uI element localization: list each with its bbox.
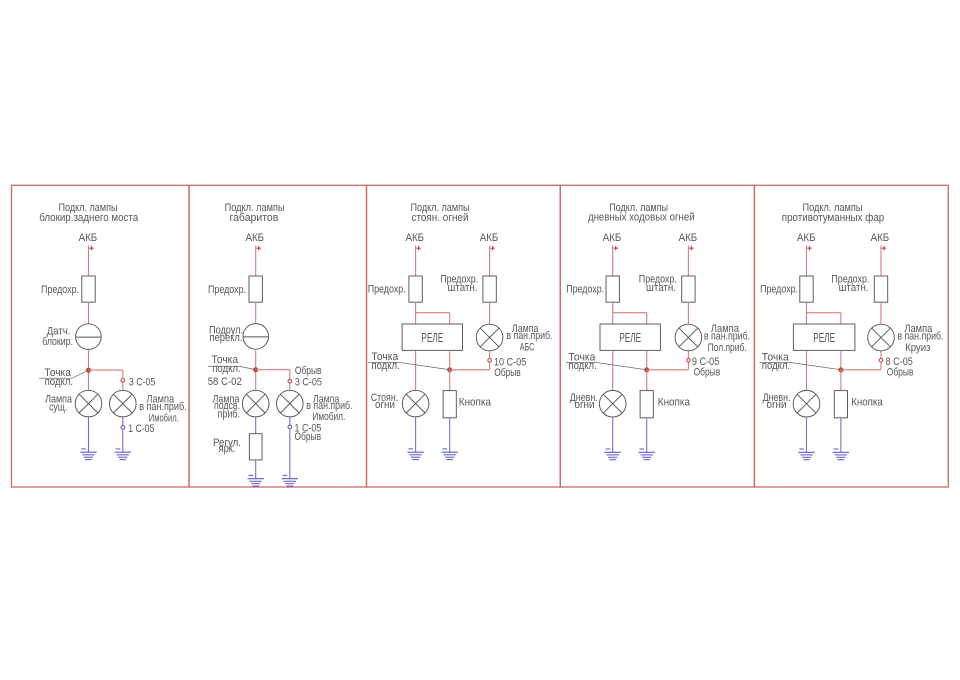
svg-text:стоян. огней: стоян. огней	[412, 212, 469, 224]
panel 1 frame (блокир. заднего моста)	[12, 185, 190, 487]
wire relay to node P4	[646, 350, 648, 369]
lamp HL2 пан.приб. P2	[277, 390, 304, 417]
connector 1 С-05 P1	[121, 426, 125, 430]
wire fuse to relay pin 1 P3	[415, 302, 417, 324]
ground under resistor P2	[248, 475, 264, 486]
node Точка подкл. P4	[644, 367, 649, 372]
panel 5 frame (противотуманных фар)	[754, 185, 948, 487]
wire АКБ to fuse left P5	[806, 246, 808, 277]
fuse Предохр. P4	[606, 276, 619, 302]
lamp HL2 пан.приб. P1	[110, 390, 137, 417]
svg-text:перекл.: перекл.	[210, 332, 243, 344]
svg-text:Предохр.: Предохр.	[368, 284, 406, 296]
wire lamp HL2 to ground P1	[122, 417, 124, 452]
wire button to ground P5	[840, 418, 842, 453]
ground under HL2 P2	[282, 475, 298, 486]
leader Точка подкл. P3	[368, 363, 449, 370]
battery plus mark right P3	[490, 246, 495, 251]
button Кнопка P4	[640, 391, 653, 418]
node Точка подкл. P1	[86, 368, 91, 373]
fuse штатн. P3	[483, 276, 496, 302]
svg-text:Обрыв: Обрыв	[295, 365, 322, 377]
lamp Дневн.огни P4	[599, 390, 626, 417]
svg-text:штатн.: штатн.	[448, 282, 478, 294]
wire node to branch P3	[450, 369, 490, 371]
panel 4 frame (дневных ходовых огней)	[560, 185, 754, 487]
wire relay to lamp P3	[415, 350, 417, 390]
wire АКБ to fuse left P4	[612, 246, 614, 277]
wire branch to lamp АБС P3	[489, 351, 491, 370]
wire branch horizontal P2	[256, 369, 290, 371]
svg-text:в пан.приб.: в пан.приб.	[897, 331, 943, 343]
lamp Дневн.огни P5	[793, 390, 820, 417]
connector 8 С-05 P5	[879, 358, 883, 362]
svg-text:АКБ: АКБ	[797, 232, 816, 244]
wire node to branch P4	[647, 369, 689, 371]
wire split horizontal P3	[416, 312, 450, 314]
wire lamp to ground P4	[612, 417, 614, 452]
svg-text:штатн.: штатн.	[646, 282, 676, 294]
svg-text:Пол.приб.: Пол.приб.	[708, 342, 747, 354]
wire relay to node P5	[840, 350, 842, 369]
ground under button P5	[833, 449, 849, 460]
ground under lamp P5	[798, 449, 814, 460]
switch Подрул.перекл. P2	[243, 324, 269, 350]
svg-text:1 С-05: 1 С-05	[128, 423, 154, 435]
lamp HL1 сущ. P1	[75, 390, 102, 417]
wire lamp to ground P5	[806, 417, 808, 452]
svg-text:Кнопка: Кнопка	[459, 397, 492, 409]
node Точка подкл. P3	[447, 367, 452, 372]
svg-text:Кнопка: Кнопка	[658, 397, 691, 409]
svg-text:Предохр.: Предохр.	[566, 284, 604, 296]
svg-text:Круиз: Круиз	[905, 342, 930, 354]
wire lamp to ground P3	[415, 417, 417, 452]
svg-text:Предохр.: Предохр.	[760, 284, 798, 296]
fuse штатн. P5	[874, 276, 887, 302]
wire fuse to switch P2	[255, 302, 257, 323]
svg-text:Кнопка: Кнопка	[851, 397, 883, 409]
svg-text:в пан.приб.: в пан.приб.	[139, 401, 187, 413]
connector 10 С-05 P3	[488, 359, 492, 363]
wire node to button P3	[449, 370, 451, 391]
ground under lamp P4	[605, 449, 621, 460]
wire resistor to ground P2	[255, 460, 257, 479]
svg-text:подкл.: подкл.	[762, 360, 790, 372]
svg-text:АКБ: АКБ	[603, 232, 622, 244]
wire fuse to sensor P1	[88, 302, 90, 324]
ground under lamp P3	[407, 449, 423, 460]
relay РЕЛЕ P5	[793, 324, 855, 350]
wire split to relay pin 2 P5	[840, 313, 842, 324]
svg-text:Предохр.: Предохр.	[41, 284, 79, 296]
wire АКБ to fuse P2	[255, 246, 257, 277]
wire АКБ to fuse right P4	[687, 246, 689, 277]
battery plus mark right P4	[689, 246, 694, 251]
svg-text:АКБ: АКБ	[679, 232, 698, 244]
wire relay to lamp P5	[806, 350, 808, 390]
wire switch to lamp HL1 P2	[255, 349, 257, 390]
svg-text:подкл.: подкл.	[568, 360, 596, 372]
wire relay to node P3	[449, 350, 451, 369]
wire fuse to lamp Круиз P5	[880, 302, 882, 324]
svg-text:АКБ: АКБ	[246, 232, 265, 244]
svg-text:АКБ: АКБ	[406, 232, 425, 244]
button Кнопка P5	[834, 391, 847, 418]
wire branch to lamp P5	[880, 351, 882, 370]
svg-text:АКБ: АКБ	[871, 232, 890, 244]
connector 9 С-05 P4	[687, 358, 691, 362]
svg-text:Обрыв: Обрыв	[295, 431, 322, 443]
battery plus mark P1	[89, 246, 94, 251]
svg-text:противотуманных фар: противотуманных фар	[782, 212, 885, 224]
svg-text:дневных ходовых огней: дневных ходовых огней	[588, 212, 695, 224]
fuse Предохр. P5	[800, 276, 813, 302]
lamp АБС P3	[476, 324, 503, 351]
svg-text:Обрыв: Обрыв	[694, 367, 721, 379]
wire АКБ to fuse left P3	[415, 246, 417, 277]
ground under HL2 P1	[115, 449, 131, 460]
svg-text:Предохр.: Предохр.	[208, 284, 246, 296]
svg-text:Обрыв: Обрыв	[887, 367, 914, 379]
resistor Регул.ярк. P2	[249, 434, 262, 460]
battery plus mark left P3	[416, 246, 421, 251]
svg-text:Имобил.: Имобил.	[312, 411, 345, 423]
wire АКБ to fuse right P3	[489, 246, 491, 277]
svg-text:подкл.: подкл.	[212, 363, 241, 375]
wire fuse to relay pin 1 P4	[612, 302, 614, 324]
svg-text:огни: огни	[375, 399, 395, 411]
wire button to ground P3	[449, 418, 451, 452]
connector 1 С-05 Обрыв P2	[288, 425, 292, 429]
svg-text:штатн.: штатн.	[839, 282, 869, 294]
svg-text:подкл.: подкл.	[45, 376, 74, 388]
svg-text:АБС: АБС	[520, 341, 535, 353]
wire АКБ to fuse P1	[88, 246, 90, 277]
wire lamp HL1 to ground P1	[88, 417, 90, 452]
relay РЕЛЕ P3	[402, 324, 462, 350]
wire branch to lamp HL2 P1	[122, 370, 124, 390]
svg-text:блокир.заднего моста: блокир.заднего моста	[39, 212, 139, 224]
fuse Предохр. P1	[82, 276, 95, 302]
wire split horizontal P5	[807, 312, 841, 314]
wire node to button P5	[840, 370, 842, 391]
wire fuse to lamp АБС P3	[489, 302, 491, 324]
wire fuse to lamp Пол.приб. P4	[687, 302, 689, 324]
wire lamp HL1 to resistor P2	[255, 417, 257, 434]
fuse Предохр. P2	[249, 276, 262, 302]
battery plus mark P2	[256, 246, 261, 251]
wire split horizontal P4	[613, 312, 647, 314]
ground under button P3	[442, 449, 458, 460]
leader Точка подкл. P4	[566, 363, 647, 370]
svg-text:РЕЛЕ: РЕЛЕ	[421, 330, 443, 345]
lamp Стоян.огни P3	[402, 390, 429, 417]
sensor Датч.блокир. P1	[76, 324, 102, 350]
svg-text:сущ.: сущ.	[49, 401, 67, 413]
button Кнопка P3	[443, 391, 456, 418]
lamp Круиз P5	[868, 324, 895, 351]
svg-text:58 С-02: 58 С-02	[208, 376, 242, 388]
svg-text:огни: огни	[575, 399, 595, 411]
leader Точка подкл. P1	[39, 370, 89, 378]
panel 3 frame (стоян. огней)	[367, 185, 561, 487]
leader Точка подкл. P2	[208, 366, 256, 369]
svg-text:габаритов: габаритов	[230, 212, 279, 224]
svg-text:блокир.: блокир.	[42, 336, 73, 348]
fuse Предохр. P3	[409, 276, 422, 302]
battery plus mark left P5	[807, 246, 812, 251]
svg-text:РЕЛЕ: РЕЛЕ	[619, 330, 641, 345]
wire branch horizontal P1	[89, 369, 123, 371]
ground under HL1 P1	[80, 449, 96, 460]
lamp Пол.приб. P4	[675, 324, 702, 351]
wire branch to lamp HL2 P2	[289, 370, 291, 391]
fuse штатн. P4	[682, 276, 695, 302]
wire relay to lamp P4	[612, 350, 614, 390]
svg-text:подкл.: подкл.	[371, 360, 399, 372]
panel 2 frame (габаритов)	[189, 185, 367, 487]
svg-text:3 С-05: 3 С-05	[129, 377, 155, 389]
relay РЕЛЕ P4	[600, 324, 660, 350]
svg-text:АКБ: АКБ	[480, 232, 499, 244]
node Точка подкл. P5	[838, 367, 843, 372]
wire split to relay pin 2 P3	[449, 313, 451, 324]
svg-text:в пан.приб.: в пан.приб.	[506, 330, 552, 342]
svg-text:в пан.приб.: в пан.приб.	[704, 331, 750, 343]
wire split to relay pin 2 P4	[646, 313, 648, 324]
node Точка подкл. 58 С-02 P2	[253, 367, 258, 372]
wire branch to lamp P4	[687, 351, 689, 370]
svg-text:ярк.: ярк.	[219, 443, 236, 455]
wire lamp HL2 to ground P2	[289, 417, 291, 479]
wire button to ground P4	[646, 418, 648, 453]
battery plus mark right P5	[882, 246, 887, 251]
battery plus mark left P4	[613, 246, 618, 251]
wire fuse to relay pin 1 P5	[806, 302, 808, 324]
ground under button P4	[639, 449, 655, 460]
svg-text:3 С-05: 3 С-05	[295, 377, 322, 389]
connector 3 С-05 P1	[121, 379, 125, 383]
svg-text:огни: огни	[767, 399, 787, 411]
lamp HL1 подсв.приб. P2	[242, 390, 269, 417]
svg-text:Обрыв: Обрыв	[494, 367, 521, 379]
svg-text:РЕЛЕ: РЕЛЕ	[813, 330, 835, 345]
wire АКБ to fuse right P5	[880, 246, 882, 277]
wire node to branch P5	[841, 369, 881, 371]
wire node to button P4	[646, 370, 648, 391]
wire sensor to lamp HL1 P1	[88, 349, 90, 390]
svg-text:АКБ: АКБ	[79, 232, 98, 244]
leader Точка подкл. P5	[760, 363, 841, 370]
svg-text:приб.: приб.	[218, 408, 241, 420]
connector Обрыв 3 С-05 P2	[288, 379, 292, 383]
